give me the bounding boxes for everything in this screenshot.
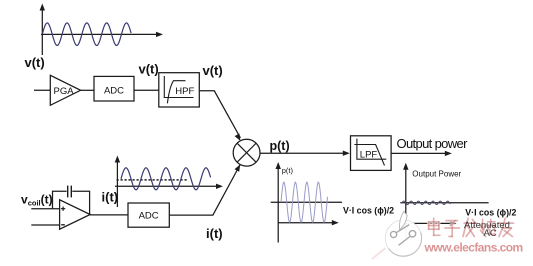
svg-text:V·I cos (ϕ)/2: V·I cos (ϕ)/2 bbox=[343, 206, 394, 216]
svg-text:HPF: HPF bbox=[175, 86, 194, 97]
svg-text:AC: AC bbox=[484, 228, 497, 239]
svg-text:p(t): p(t) bbox=[270, 139, 290, 153]
svg-text:v(t): v(t) bbox=[25, 55, 45, 70]
svg-text:www.elecfans.com: www.elecfans.com bbox=[424, 241, 523, 255]
svg-text:ADC: ADC bbox=[104, 86, 124, 97]
svg-text:i(t): i(t) bbox=[206, 226, 223, 241]
svg-text:Output Power: Output Power bbox=[412, 170, 461, 179]
svg-text:i(t): i(t) bbox=[102, 190, 119, 205]
svg-text:v(t): v(t) bbox=[139, 62, 159, 77]
svg-text:Output power: Output power bbox=[397, 136, 469, 151]
svg-text:LPF: LPF bbox=[360, 150, 378, 161]
svg-text:V·I cos (ϕ)/2: V·I cos (ϕ)/2 bbox=[465, 207, 516, 217]
svg-text:p(t): p(t) bbox=[282, 166, 294, 175]
svg-text:v(t): v(t) bbox=[203, 63, 223, 78]
svg-text:ADC: ADC bbox=[139, 210, 159, 221]
svg-text:PGA: PGA bbox=[54, 86, 75, 97]
